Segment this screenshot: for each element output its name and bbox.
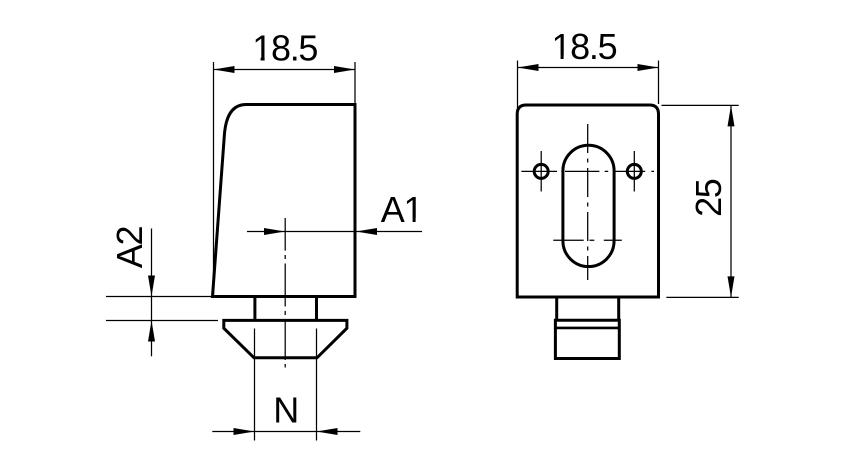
right view tab hammer outline: [555, 320, 619, 358]
right view slot obround: [563, 145, 614, 266]
right view right hole: [627, 164, 641, 178]
svg-text:18.5: 18.5: [551, 26, 616, 67]
left view hammer head outline: [224, 320, 347, 357]
dim 18.5 left view label: [252, 28, 317, 69]
right view tab neck edges: [557, 297, 619, 321]
left view body outline: [213, 105, 356, 297]
right view vertical centerline: [587, 124, 589, 280]
dim N label: [273, 390, 299, 431]
svg-text:25: 25: [688, 179, 729, 217]
dim 25 dimension line: [728, 105, 735, 297]
dim 18.5 right view dimension line: [518, 64, 659, 71]
dim 25 label: [688, 179, 729, 217]
left view vertical centerline: [284, 218, 286, 368]
svg-text:18.5: 18.5: [252, 28, 317, 69]
dim N extension lines: [255, 329, 317, 441]
dim A2 label: [109, 227, 150, 269]
dim A2 dimension line: [148, 229, 155, 357]
right view tab inner line: [555, 327, 619, 330]
dim 25 extension lines: [662, 105, 739, 297]
right view horizontal centerline: [521, 170, 654, 172]
white masks to remove foot serif of digit 1 glyphs: [254, 55, 571, 223]
dim 18.5 right view label: [551, 26, 616, 67]
right view slot bottom arc centerline: [553, 239, 622, 241]
svg-text:A1: A1: [381, 189, 423, 230]
right view body outline: [517, 105, 658, 297]
dim A2 extension lines: [106, 297, 218, 321]
right view left hole: [534, 164, 548, 178]
right view hole center crosses: [541, 151, 634, 192]
dim 18.5 right view extension lines: [518, 61, 659, 109]
dim A1 label: [381, 189, 423, 230]
left view neck edges: [255, 297, 317, 321]
svg-text:A2: A2: [109, 227, 150, 269]
dim A1 dimension line: [247, 228, 422, 235]
svg-text:N: N: [273, 390, 299, 431]
dim N dimension line: [212, 428, 360, 435]
dim 18.5 left view dimension line: [214, 66, 356, 73]
dim 18.5 left view extension lines: [214, 62, 356, 294]
